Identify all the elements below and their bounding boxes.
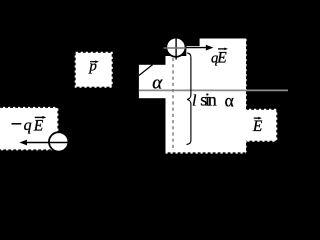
serrated right edge of central region [245, 39, 247, 110]
gray horizontal axis line [139, 89, 288, 91]
svg-text:α: α [152, 73, 163, 94]
dipole rod segment [139, 65, 153, 76]
plus crosshair vertical [175, 34, 177, 60]
svg-text:E: E [252, 118, 263, 135]
svg-text:α: α [225, 90, 234, 110]
p box [76, 53, 112, 87]
E box (right) [244, 110, 276, 141]
minus-qE box [0, 108, 57, 149]
minus sign line through circle [49, 142, 68, 144]
svg-text:E: E [33, 117, 44, 134]
central white region (qE box area) [200, 39, 246, 58]
label minus qE vector [12, 123, 22, 125]
plus crosshair horizontal (gray) [164, 47, 186, 49]
svg-text:l: l [192, 93, 197, 110]
plus charge circle [166, 38, 185, 57]
dashed vertical line [172, 58, 174, 149]
minus charge circle [49, 132, 68, 151]
central white region (filler right of circle) [186, 46, 200, 57]
svg-text:sin: sin [200, 89, 216, 109]
central white region (alpha area) [139, 65, 167, 98]
minus-qE force arrow (left) [26, 142, 49, 144]
brace for l sin alpha [187, 53, 191, 145]
serrated bottom edge of central region [166, 152, 247, 154]
qE force arrow (right) [186, 47, 207, 49]
central white region (main under-circle area) [166, 56, 247, 152]
svg-text:q: q [24, 117, 32, 134]
serrated right edge of central region below E box [245, 141, 247, 153]
svg-text:E: E [216, 50, 227, 67]
